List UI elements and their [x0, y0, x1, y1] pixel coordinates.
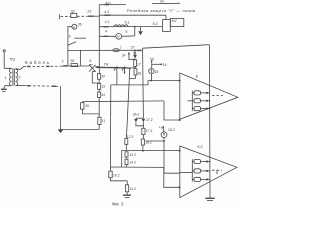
svg-text:24: 24: [71, 9, 75, 13]
wire to right vertical: [142, 48, 144, 50]
resistor 25 on wire: [71, 64, 78, 67]
svg-text:18: 18: [137, 71, 141, 75]
arrester 24: [71, 13, 77, 17]
svg-text:7: 7: [120, 46, 122, 50]
svg-text:V: V: [117, 35, 120, 39]
wire y150.5: [122, 151, 180, 167]
wire: [165, 15, 167, 19]
wire 4.n top: [99, 4, 126, 6]
svg-text:30: 30: [85, 104, 89, 108]
svg-text:5.1: 5.1: [125, 20, 130, 24]
svg-text:4.2: 4.2: [104, 10, 109, 14]
svg-text:2н: 2н: [160, 0, 164, 4]
resistor 10.2: [109, 171, 112, 178]
svg-text:Релейная защита "У" — линия: Релейная защита "У" — линия: [127, 8, 196, 13]
wire 27 long: [81, 49, 143, 51]
ground under transformer: [4, 86, 12, 89]
CT secondary drops: [116, 68, 118, 85]
chain 10/13/14 under bus: [98, 66, 100, 73]
svg-text:25: 25: [70, 59, 74, 63]
svg-text:24: 24: [122, 53, 126, 57]
voltmeter 26: [72, 24, 77, 29]
wire y167: [110, 166, 163, 168]
svg-text:23: 23: [87, 9, 91, 13]
long right vertical: [208, 45, 211, 198]
svg-text:15.2: 15.2: [168, 128, 175, 132]
svg-text:27: 27: [131, 46, 135, 50]
cable bottom wire: [16, 85, 24, 87]
svg-text:9: 9: [69, 34, 71, 38]
svg-text:Фиг. 3: Фиг. 3: [112, 201, 124, 206]
dashed line 23: [61, 15, 71, 17]
dashed output T2: [212, 169, 222, 171]
svg-text:16: 16: [163, 63, 167, 67]
down to T2 input: [164, 141, 180, 173]
wire 4.2: [99, 14, 166, 16]
wire 4.1 / 5.2: [99, 26, 162, 28]
fuse oval 7: [113, 49, 119, 52]
svg-text:5.2: 5.2: [153, 22, 158, 26]
svg-text:27.2: 27.2: [146, 118, 153, 122]
svg-text:11: 11: [102, 119, 106, 123]
svg-text:17: 17: [137, 63, 141, 67]
resistor 18.2: [141, 139, 144, 145]
resistor 30: [81, 102, 83, 103]
svg-text:17.2: 17.2: [146, 129, 153, 133]
long slanted vertical to 12.2: [126, 68, 129, 138]
ground at 140: [140, 27, 142, 32]
terminal dot left top: [59, 14, 61, 19]
svg-text:11.2: 11.2: [130, 187, 136, 191]
svg-text:5: 5: [125, 30, 127, 34]
svg-text:10.2: 10.2: [113, 173, 120, 177]
opamp 8 triangle: [180, 73, 238, 119]
ground wire left: [60, 129, 99, 131]
current source 15: [151, 80, 153, 82]
svg-text:6: 6: [89, 59, 91, 63]
resistor 17: [134, 60, 137, 67]
cable top wire: [16, 67, 24, 70]
branch down from contact: [68, 45, 81, 66]
junction: [134, 26, 136, 28]
svg-text:8: 8: [196, 75, 198, 79]
resistor 11: [98, 117, 101, 124]
bus x143 down: [142, 50, 145, 118]
contact box KV: [170, 19, 184, 27]
vertical 110.8 long: [109, 85, 111, 167]
dashed: [77, 15, 87, 17]
svg-text:13: 13: [101, 85, 105, 89]
svg-text:14: 14: [101, 93, 105, 97]
voltmeter 5: [116, 33, 122, 39]
inductor 5.1: [114, 25, 128, 27]
svg-text:9.2: 9.2: [197, 145, 202, 149]
resistor 11.2: [126, 181, 128, 185]
svg-text:4: 4: [105, 29, 107, 33]
svg-text:13.2: 13.2: [129, 153, 136, 157]
svg-text:2: 2: [62, 60, 64, 64]
main bus y101.5: [82, 100, 164, 103]
svg-text:+U: +U: [150, 57, 155, 61]
svg-text:1: 1: [5, 75, 8, 80]
svg-text:4.1: 4.1: [105, 20, 110, 24]
bus vertical left: [98, 5, 100, 67]
svg-text:26: 26: [78, 22, 82, 26]
resistor 17.2: [142, 128, 145, 134]
resistor 18: [134, 69, 137, 75]
svg-text:15: 15: [155, 70, 159, 74]
ground bottom right: [205, 197, 215, 199]
wire y85: [111, 84, 148, 86]
svg-text:KV: KV: [172, 19, 178, 23]
opamp 9.2 triangle: [180, 146, 237, 198]
svg-text:2: 2: [18, 75, 21, 80]
relay coil KV: [163, 20, 171, 32]
resistor 13.2: [125, 152, 128, 157]
dashed output T1: [212, 95, 223, 97]
svg-text:10: 10: [101, 75, 105, 79]
svg-text:4.н: 4.н: [106, 1, 111, 5]
svg-text:14.2: 14.2: [129, 161, 136, 165]
+U 16 feed: [151, 64, 153, 68]
svg-text:26.2: 26.2: [133, 113, 140, 117]
wire 4: [99, 35, 116, 37]
svg-text:Кабель: Кабель: [25, 60, 51, 65]
resistor 14.2: [125, 159, 128, 164]
wire y141: [146, 140, 165, 142]
svg-text:ТА: ТА: [104, 62, 109, 66]
opto boxes T2: [191, 159, 193, 181]
opto boxes T1: [191, 91, 193, 111]
svg-text:TV: TV: [10, 57, 16, 62]
